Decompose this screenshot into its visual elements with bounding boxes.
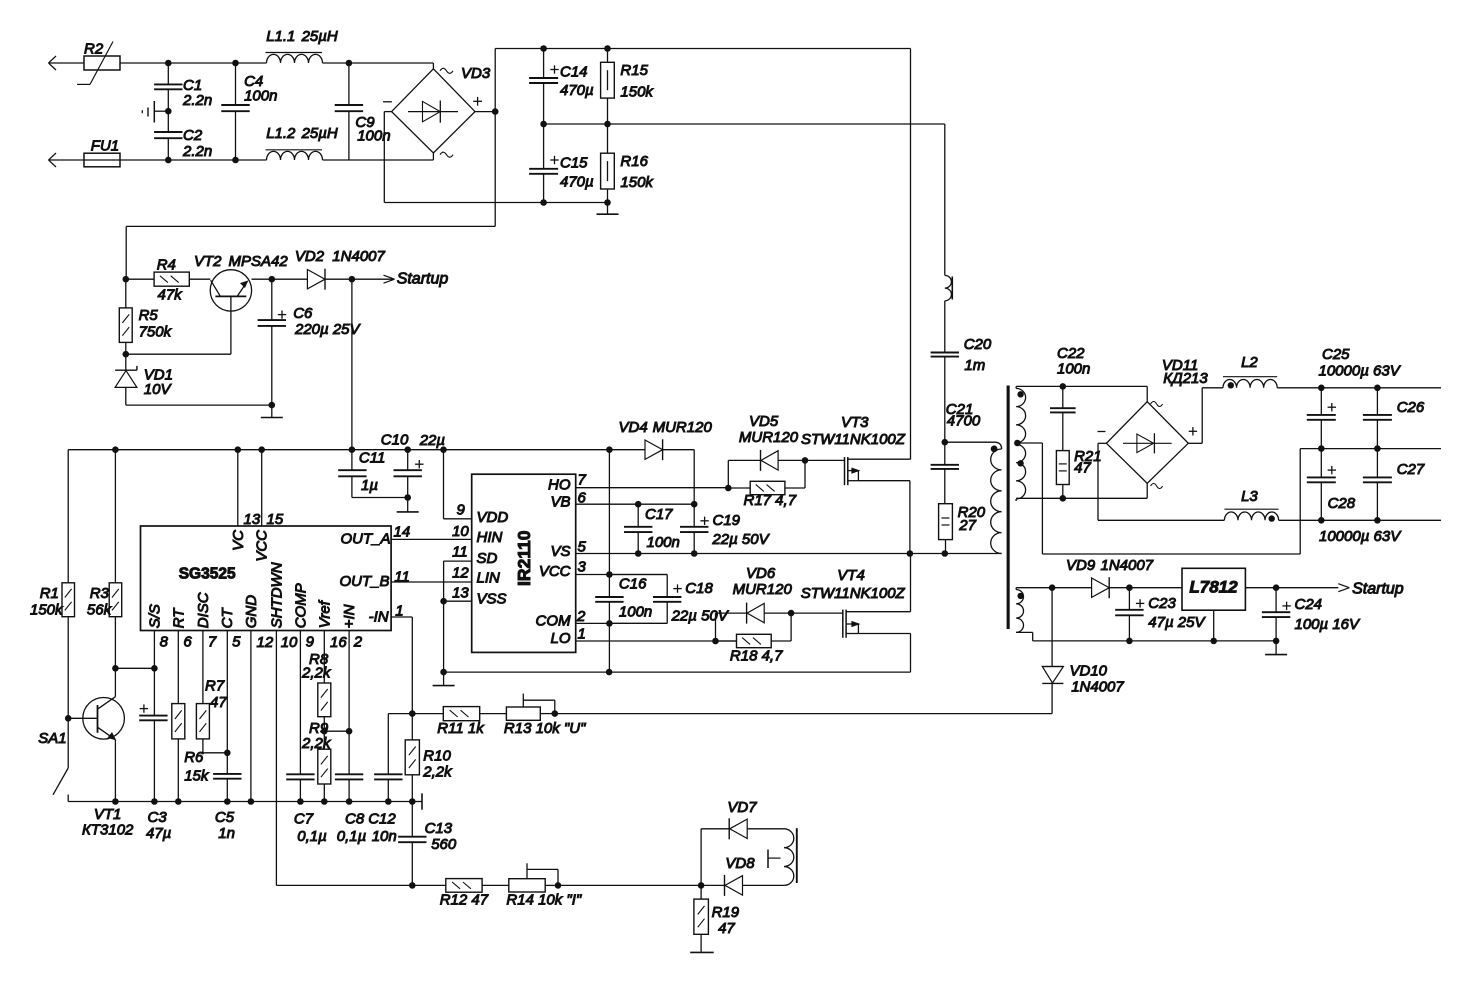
- ground (startup): [261, 405, 283, 417]
- wire +310V top rail: [495, 45, 910, 52]
- svg-text:12: 12: [452, 565, 469, 582]
- svg-text:GND: GND: [243, 595, 260, 629]
- transistor VT2 MPSA42: [194, 253, 288, 354]
- pin 15 VCC: [254, 450, 284, 562]
- svg-text:VD6: VD6: [746, 565, 776, 582]
- svg-text:10: 10: [452, 523, 469, 540]
- svg-text:C26: C26: [1397, 399, 1425, 416]
- svg-text:5: 5: [232, 634, 241, 651]
- svg-text:SD: SD: [477, 550, 498, 567]
- wire R2 to C1/C4/L1.1: [120, 60, 267, 67]
- diode VD7: [701, 799, 784, 885]
- svg-text:C6: C6: [293, 305, 313, 322]
- pin 9 COMP: [293, 583, 315, 774]
- capacitor C10 22u: [381, 432, 445, 501]
- svg-text:R6: R6: [184, 749, 204, 766]
- svg-text:100n: 100n: [1057, 361, 1090, 378]
- wire R3 to S/S: [112, 665, 158, 672]
- potentiometer R13 10k U: [480, 694, 586, 737]
- capacitor C26: [1363, 388, 1425, 449]
- diode VD2 1N4007: [272, 248, 386, 290]
- wire FU1 to C2/C4/L1.2: [120, 157, 267, 164]
- svg-text:0,1µ: 0,1µ: [337, 828, 367, 845]
- diode VD5 MUR120: [728, 413, 805, 488]
- bridge rectifier VD11 KD213: [1098, 357, 1209, 498]
- svg-text:13: 13: [452, 585, 469, 602]
- capacitor C1 2.2n: [154, 63, 212, 111]
- wire aux ground rail: [1033, 638, 1280, 645]
- svg-text:100n: 100n: [619, 604, 652, 621]
- svg-text:VT3: VT3: [841, 414, 869, 431]
- svg-text:C12: C12: [368, 811, 396, 828]
- svg-text:100n: 100n: [647, 534, 680, 551]
- svg-text:VSS: VSS: [477, 591, 507, 608]
- svg-text:C10: C10: [381, 432, 409, 449]
- svg-text:C14: C14: [560, 64, 588, 81]
- svg-text:2,2k: 2,2k: [301, 735, 332, 752]
- svg-text:R14 10k "I": R14 10k "I": [506, 892, 582, 909]
- svg-text:11: 11: [452, 544, 468, 561]
- pin 7 HO: [548, 472, 728, 494]
- svg-text:C11: C11: [359, 449, 385, 466]
- node C21/primary: [942, 401, 981, 446]
- svg-text:VT1: VT1: [94, 806, 122, 823]
- pin 3 VCC: [539, 559, 667, 581]
- pin 2 COM: [536, 608, 668, 630]
- svg-text:L2: L2: [1241, 354, 1258, 371]
- svg-text:L1.2: L1.2: [266, 125, 296, 142]
- svg-text:14: 14: [394, 524, 411, 541]
- svg-text:2,2k: 2,2k: [301, 665, 332, 682]
- ground (R19): [690, 951, 714, 953]
- svg-text:470µ: 470µ: [560, 82, 594, 99]
- svg-text:11: 11: [394, 568, 410, 585]
- op-amp U3 L7812 (regulator): [1182, 568, 1245, 641]
- svg-text:7: 7: [208, 634, 217, 651]
- potentiometer R14 10k I: [506, 863, 582, 908]
- zener diode VD1 10V: [115, 354, 173, 405]
- svg-text:LIN: LIN: [477, 570, 501, 587]
- wire U feedback line: [552, 710, 1053, 717]
- wire aux top lead: [1016, 584, 1092, 591]
- svg-text:750k: 750k: [139, 324, 173, 341]
- svg-text:VT2: VT2: [194, 253, 222, 270]
- svg-text:HO: HO: [548, 477, 571, 494]
- svg-text:C8: C8: [345, 811, 365, 828]
- diode VD9 1N4007: [1066, 557, 1182, 598]
- svg-text:2: 2: [576, 608, 586, 625]
- wire VD1 to C6 gnd: [126, 402, 275, 409]
- svg-text:VD9: VD9: [1066, 557, 1096, 574]
- svg-text:C20: C20: [964, 336, 992, 353]
- svg-text:+IN: +IN: [341, 604, 358, 628]
- svg-text:COM: COM: [536, 613, 572, 630]
- wire gate VT3: [802, 457, 845, 464]
- wire VT3 drain to +310V: [910, 49, 912, 460]
- wire startup feed (bridge+ down-left): [126, 112, 495, 280]
- svg-text:VDD: VDD: [477, 509, 509, 526]
- svg-text:S/S: S/S: [147, 604, 164, 628]
- varistor R2: [77, 41, 120, 85]
- resistor R4 47k: [123, 257, 211, 304]
- wire 12V output: [1245, 584, 1338, 591]
- svg-text:47: 47: [210, 694, 227, 711]
- pin 2 +IN: [341, 604, 363, 731]
- svg-text:LO: LO: [550, 630, 570, 647]
- pin 10 HIN: [452, 523, 502, 546]
- wire OUT_B to LIN: [391, 581, 472, 583]
- svg-text:DISC: DISC: [195, 592, 212, 628]
- svg-text:VD4: VD4: [619, 419, 648, 436]
- svg-text:R2: R2: [84, 41, 104, 58]
- svg-text:2.2n: 2.2n: [182, 92, 212, 109]
- svg-text:2.2n: 2.2n: [182, 143, 212, 160]
- svg-text:VC: VC: [230, 530, 247, 551]
- svg-text:COMP: COMP: [293, 583, 310, 628]
- node Startup (right): [1338, 581, 1403, 598]
- svg-text:3: 3: [578, 559, 587, 576]
- capacitor C5 1n: [213, 750, 241, 843]
- svg-text:10V: 10V: [144, 381, 173, 398]
- svg-text:R3: R3: [90, 585, 110, 602]
- resistor R21 47: [1056, 448, 1101, 498]
- svg-text:R13 10k "U": R13 10k "U": [504, 720, 586, 737]
- wire L1.1 to bridge: [323, 60, 434, 67]
- svg-text:C18: C18: [685, 580, 713, 597]
- svg-text:1N4007: 1N4007: [1071, 679, 1124, 696]
- resistor R18 4.7: [716, 613, 792, 665]
- capacitor C20 1m: [931, 301, 992, 442]
- svg-text:VD10: VD10: [1070, 663, 1108, 680]
- capacitor C9 100n: [335, 63, 391, 160]
- resistor R20 27: [939, 504, 986, 557]
- node LO split: [712, 638, 719, 645]
- capacitor C4 100n: [221, 63, 277, 160]
- svg-text:560: 560: [431, 836, 457, 853]
- wire secondary bottom lead: [1016, 495, 1147, 502]
- transistor Q VT3 STW11NK100Z (MOSFET): [801, 414, 911, 485]
- pin 1 -IN: [369, 603, 404, 626]
- svg-text:1N4007: 1N4007: [1101, 557, 1154, 574]
- wire VD11 plus to L2: [1188, 388, 1223, 444]
- node AC input N (arrow): [49, 153, 85, 167]
- svg-text:4700: 4700: [947, 413, 981, 430]
- node Startup (left): [349, 271, 449, 288]
- svg-text:R4: R4: [157, 257, 176, 274]
- pin 12 LIN: [452, 565, 500, 587]
- node HO split: [725, 485, 732, 492]
- svg-text:VCC: VCC: [254, 530, 271, 562]
- diode VD4 MUR120: [609, 419, 712, 460]
- svg-text:150k: 150k: [620, 83, 654, 100]
- svg-text:56k: 56k: [87, 602, 113, 619]
- wire VCC rail: [68, 446, 613, 453]
- wire bridge minus to gnd rail: [384, 112, 391, 203]
- wire VD11 minus to L3: [1098, 443, 1224, 520]
- wire R5/VD1/base node: [123, 351, 231, 358]
- svg-text:C19: C19: [713, 512, 741, 529]
- ground (C10/C11): [397, 498, 419, 512]
- pin 8 S/S: [147, 604, 169, 668]
- svg-text:Startup: Startup: [1352, 581, 1404, 598]
- svg-text:6: 6: [578, 490, 587, 507]
- svg-text:100n: 100n: [244, 88, 277, 105]
- ground (aux): [1265, 641, 1287, 655]
- resistor R3 56k: [87, 450, 122, 669]
- svg-text:R17 4,7: R17 4,7: [744, 492, 797, 509]
- svg-text:MUR120: MUR120: [733, 581, 793, 598]
- svg-text:1m: 1m: [964, 357, 985, 374]
- svg-text:15: 15: [267, 511, 284, 528]
- wire secondary top lead: [1016, 383, 1147, 390]
- wire bridge plus node: [475, 108, 499, 115]
- svg-text:16: 16: [330, 634, 347, 651]
- svg-text:C7: C7: [294, 811, 314, 828]
- svg-text:VB: VB: [550, 494, 570, 511]
- capacitor C3 47u: [139, 668, 171, 842]
- svg-text:2,2k: 2,2k: [422, 764, 453, 781]
- pin 5 VS: [550, 538, 944, 560]
- wire centre tap to output mid rail: [1042, 443, 1441, 554]
- resistor R10 2.2k: [405, 714, 453, 802]
- svg-text:470µ: 470µ: [560, 174, 594, 191]
- svg-text:VD5: VD5: [749, 413, 779, 430]
- svg-text:R15: R15: [620, 62, 648, 79]
- resistor R1 150k: [30, 450, 75, 719]
- op-amp U1 SG3525 (PWM controller): [141, 526, 392, 631]
- svg-text:9: 9: [457, 502, 466, 519]
- inductor L2: [1223, 354, 1277, 388]
- pin 12 GND: [243, 595, 274, 802]
- capacitor C23 47u 25V: [1115, 588, 1206, 641]
- svg-text:2: 2: [353, 634, 363, 651]
- svg-text:47: 47: [1074, 460, 1091, 477]
- svg-text:VD3: VD3: [461, 65, 491, 82]
- wire Vref divider to +IN: [321, 728, 352, 735]
- svg-text:15k: 15k: [184, 768, 210, 785]
- svg-text:R1: R1: [40, 585, 59, 602]
- svg-text:13: 13: [244, 511, 261, 528]
- capacitor C2 2.2n: [154, 111, 212, 160]
- ground (C1/C2 midpoint): [142, 101, 171, 123]
- svg-text:1N4007: 1N4007: [332, 248, 385, 265]
- svg-text:100µ 16V: 100µ 16V: [1295, 616, 1362, 633]
- svg-text:7: 7: [578, 472, 587, 489]
- svg-text:VD8: VD8: [725, 855, 755, 872]
- resistor R11 1k: [412, 707, 485, 737]
- pin 16 Vref: [316, 599, 347, 683]
- wire +V output rail: [1277, 385, 1441, 392]
- svg-text:47: 47: [718, 920, 735, 937]
- svg-text:10000µ 63V: 10000µ 63V: [1319, 363, 1402, 380]
- transformer T1 secondary B: [1016, 444, 1026, 499]
- resistor R16 150k: [601, 124, 655, 203]
- svg-text:C15: C15: [560, 154, 588, 171]
- wire VD2 node to VCC rail: [351, 279, 353, 450]
- svg-text:R10: R10: [423, 748, 451, 765]
- svg-text:27: 27: [958, 517, 976, 534]
- svg-text:R11 1k: R11 1k: [437, 720, 485, 737]
- svg-text:OUT_B: OUT_B: [339, 573, 389, 590]
- current transformer T2 primary: [945, 124, 953, 301]
- pin 5 CT: [219, 606, 241, 773]
- svg-text:C3: C3: [148, 809, 168, 826]
- capacitor C19 22u 50V: [680, 504, 771, 557]
- svg-text:FU1: FU1: [91, 138, 119, 155]
- svg-text:47k: 47k: [158, 287, 184, 304]
- svg-text:C25: C25: [1322, 346, 1350, 363]
- fuse FU1: [84, 138, 120, 167]
- svg-text:L1.1: L1.1: [266, 28, 295, 45]
- svg-text:STW11NK100Z: STW11NK100Z: [801, 585, 906, 602]
- wire SD to VSS/ground: [440, 561, 471, 672]
- wire L1.2 to bridge lower AC: [323, 159, 434, 161]
- svg-text:1µ: 1µ: [361, 477, 378, 494]
- wire gate VT4: [788, 610, 843, 617]
- capacitor C7 0.1u: [286, 774, 327, 845]
- svg-text:C24: C24: [1295, 596, 1323, 613]
- pin 11 OUT_B: [339, 568, 409, 590]
- svg-text:150k: 150k: [30, 602, 64, 619]
- pin 7 DISC: [195, 592, 217, 703]
- diode VD6 MUR120: [716, 565, 793, 641]
- resistor R17 4.7: [728, 460, 805, 509]
- svg-text:Vref: Vref: [316, 599, 333, 628]
- wire -V output rail: [1279, 517, 1441, 524]
- svg-text:SG3525: SG3525: [179, 566, 236, 583]
- svg-text:C2: C2: [183, 127, 203, 144]
- svg-text:22µ 50V: 22µ 50V: [671, 608, 730, 625]
- svg-text:22µ: 22µ: [419, 432, 445, 449]
- wire VDD feed: [444, 450, 472, 519]
- svg-text:КТ3102: КТ3102: [82, 822, 134, 839]
- svg-text:R18 4,7: R18 4,7: [730, 648, 783, 665]
- svg-text:R12 47: R12 47: [440, 892, 489, 909]
- wire VD10 to U line: [1051, 683, 1053, 713]
- node centre tap: [1014, 440, 1042, 447]
- wire +310V riser: [494, 49, 496, 112]
- svg-text:1: 1: [578, 625, 586, 642]
- svg-text:IR2110: IR2110: [514, 530, 534, 586]
- wire VD4 to VB: [691, 450, 698, 508]
- pin 11 SD: [452, 544, 497, 567]
- wire IR2110 ground rail: [440, 669, 910, 676]
- pin 10 SHTDWN: [269, 562, 299, 885]
- svg-text:C17: C17: [645, 506, 673, 523]
- wire VT3 source to VS: [907, 481, 914, 557]
- svg-text:6: 6: [183, 634, 192, 651]
- svg-text:R19: R19: [712, 904, 740, 921]
- svg-text:L3: L3: [1241, 488, 1258, 505]
- svg-text:SHTDWN: SHTDWN: [269, 562, 286, 628]
- pin 6 VB: [550, 490, 694, 511]
- inductor L3: [1224, 488, 1278, 522]
- svg-text:10000µ 63V: 10000µ 63V: [1319, 528, 1402, 545]
- ground (HV minus): [597, 203, 619, 215]
- ground (IR2110): [433, 672, 455, 686]
- pin 14 OUT_A: [340, 524, 410, 548]
- svg-text:25µH: 25µH: [301, 125, 338, 142]
- svg-text:150k: 150k: [620, 174, 654, 191]
- svg-text:-IN: -IN: [369, 608, 389, 625]
- svg-text:100n: 100n: [357, 128, 390, 145]
- diode VD10 1N4007: [1042, 588, 1124, 696]
- pin 13 VC: [230, 450, 261, 551]
- svg-text:КД213: КД213: [1163, 370, 1208, 387]
- svg-text:C16: C16: [619, 576, 647, 593]
- svg-text:R7: R7: [205, 678, 225, 695]
- inductor L1.2 25uH: [266, 125, 338, 160]
- resistor R5 750k: [119, 279, 172, 354]
- svg-text:25µH: 25µH: [301, 28, 338, 45]
- svg-text:C23: C23: [1148, 595, 1176, 612]
- svg-text:47µ: 47µ: [146, 825, 171, 842]
- svg-text:R5: R5: [139, 307, 159, 324]
- svg-text:VT4: VT4: [837, 567, 865, 584]
- diode VD8: [701, 855, 784, 896]
- svg-text:STW11NK100Z: STW11NK100Z: [801, 431, 906, 448]
- resistor R19 47: [694, 885, 740, 951]
- capacitor C21 4700: [931, 442, 959, 504]
- svg-text:47µ 25V: 47µ 25V: [1148, 614, 1206, 631]
- wire -IN feedback riser: [391, 617, 416, 717]
- switch SA1: [38, 715, 71, 802]
- resistor R7 47: [196, 678, 227, 753]
- svg-text:MUR120: MUR120: [653, 419, 713, 436]
- node AC input L (arrow): [49, 56, 85, 70]
- resistor R15 150k: [601, 49, 655, 125]
- capacitor C28 10000u 63V: [1307, 449, 1402, 545]
- capacitor C24 100u 16V: [1262, 588, 1361, 641]
- svg-text:10: 10: [281, 634, 298, 651]
- svg-text:C28: C28: [1328, 495, 1356, 512]
- svg-text:Startup: Startup: [397, 271, 449, 288]
- svg-text:1n: 1n: [218, 825, 235, 842]
- svg-text:VCC: VCC: [539, 563, 571, 580]
- svg-text:C5: C5: [215, 809, 235, 826]
- pin 1 LO: [550, 625, 736, 647]
- transformer T1 core: [1007, 386, 1010, 630]
- pin 9 VDD: [457, 502, 509, 527]
- svg-text:0,1µ: 0,1µ: [297, 828, 327, 845]
- capacitor C17 100n: [624, 501, 680, 557]
- svg-text:MUR120: MUR120: [739, 429, 799, 446]
- current transformer T2 secondary: [784, 828, 797, 885]
- capacitor C18 22u 50V: [609, 575, 729, 625]
- svg-text:5: 5: [578, 538, 587, 555]
- ground (CT centre tap): [768, 850, 781, 869]
- capacitor C16 100n: [595, 575, 652, 673]
- transistor VT1 KT3102: [68, 668, 134, 838]
- wire I line to VD7/VD8 node: [555, 882, 705, 889]
- svg-text:R16: R16: [620, 153, 648, 170]
- resistor R8 2.2k: [301, 651, 332, 731]
- svg-text:RT: RT: [171, 607, 188, 629]
- capacitor C25 10000u 63V: [1307, 346, 1402, 449]
- capacitor C12 10n: [368, 714, 412, 845]
- svg-text:MPSA42: MPSA42: [229, 253, 289, 270]
- svg-text:HIN: HIN: [477, 529, 503, 546]
- svg-text:12: 12: [257, 634, 274, 651]
- wire HV minus rail: [384, 199, 611, 206]
- capacitor C11 1u: [338, 449, 408, 497]
- wire mid HV rail: [540, 121, 945, 128]
- transformer T1 secondary A: [1016, 386, 1026, 443]
- wire OUT_A to HIN: [391, 538, 472, 540]
- svg-text:VS: VS: [550, 543, 570, 560]
- svg-text:OUT_A: OUT_A: [340, 531, 390, 548]
- pin 6 RT: [171, 607, 193, 704]
